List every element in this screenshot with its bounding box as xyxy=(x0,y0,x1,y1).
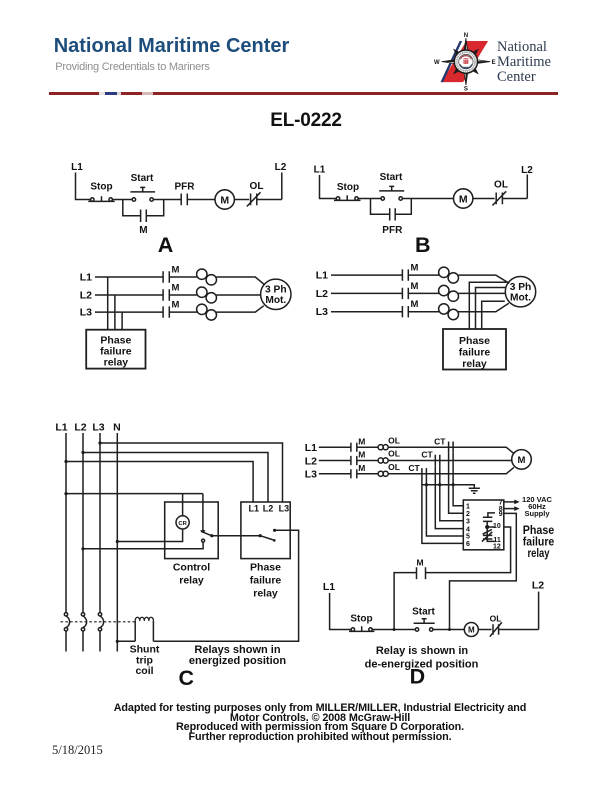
pushbutton Start (B, NO) xyxy=(379,172,404,200)
svg-text:Stop: Stop xyxy=(90,182,112,193)
svg-text:L2: L2 xyxy=(275,162,287,173)
breaker L3 (C) xyxy=(98,613,103,631)
current transformer CT L1 (D) xyxy=(434,436,453,453)
dashed trip linkage (C) xyxy=(61,621,136,623)
wire N to shunt trip coil (C) xyxy=(116,640,135,643)
wire CT L3 secondary to terminal 5 (D) xyxy=(425,480,464,537)
caption Relay is shown in de-energized position (D) xyxy=(365,645,479,670)
svg-text:12: 12 xyxy=(493,544,501,551)
svg-text:M: M xyxy=(416,558,423,568)
wire feeder L2 (C) xyxy=(82,433,84,613)
wire phase L2 (D) xyxy=(319,460,512,462)
svg-text:CT: CT xyxy=(421,450,433,460)
contact M phase L3 (MR) xyxy=(402,299,418,317)
node L3 (ML) xyxy=(80,307,92,319)
pushbutton Stop (A, NC) xyxy=(88,182,114,202)
svg-text:B: B xyxy=(415,233,431,257)
svg-text:OL: OL xyxy=(490,614,502,624)
label D xyxy=(410,665,426,689)
label 120 VAC 60Hz Supply (D) xyxy=(522,495,552,518)
contact M phase L2 (D) xyxy=(351,450,365,465)
wire branch L2 to relay terminal L2 (C) xyxy=(81,451,268,502)
wire tap L2 to relay (ML) xyxy=(114,295,116,330)
switch PFR contact (C) xyxy=(259,529,277,542)
svg-text:CR: CR xyxy=(178,521,187,527)
overload heater L1 (MR) xyxy=(439,267,459,283)
node L2 (D rung) xyxy=(532,580,544,630)
wire feeder L1 (C) xyxy=(65,433,67,613)
svg-text:1: 1 xyxy=(466,503,470,510)
wire coil to OL (A) xyxy=(234,199,249,201)
label Phase failure relay (C) xyxy=(250,562,282,600)
svg-text:M: M xyxy=(468,626,475,635)
ground bus (D) xyxy=(422,485,474,489)
svg-text:Control: Control xyxy=(173,562,210,574)
wire PFR to coil M (A) xyxy=(187,199,215,201)
overload heater L1 (D) xyxy=(378,435,400,449)
terminal numbers 1-6 (D) xyxy=(466,503,470,548)
supply arrow terminal 8 (D) xyxy=(504,506,520,511)
svg-text:6: 6 xyxy=(466,541,470,548)
wire phase L2 (MR) xyxy=(331,292,505,294)
svg-text:Mot.: Mot. xyxy=(265,295,286,306)
contact M seal-in branch (A) xyxy=(123,200,164,237)
contact CR lower terminal to L2 (C) xyxy=(81,539,204,550)
svg-text:L3: L3 xyxy=(279,503,290,513)
svg-text:Start: Start xyxy=(412,607,435,618)
svg-text:OL: OL xyxy=(388,435,400,445)
switch CR contact arm (C) xyxy=(201,531,261,537)
wire OL to L2 (D) xyxy=(499,629,539,631)
svg-text:relay: relay xyxy=(253,588,278,600)
wire coil to OL (B) xyxy=(473,198,495,200)
svg-text:relay: relay xyxy=(104,357,129,369)
wire L1 lead (B) xyxy=(320,175,337,199)
svg-text:relay: relay xyxy=(528,546,550,560)
red diagonal stripe xyxy=(441,41,488,82)
svg-text:9: 9 xyxy=(499,511,503,518)
node L1 (A) xyxy=(71,162,83,173)
svg-text:L1: L1 xyxy=(249,503,260,513)
contact M phase L1 (D) xyxy=(351,436,365,451)
svg-text:OL: OL xyxy=(388,449,400,459)
label Phase failure relay (D) xyxy=(523,523,555,560)
wire CT L2 secondary to terminal 4 (D) xyxy=(435,466,463,528)
svg-text:PFR: PFR xyxy=(175,182,196,193)
wire branch L3 to relay terminal L3 (C) xyxy=(98,441,282,502)
svg-text:A: A xyxy=(158,233,174,257)
svg-text:L1: L1 xyxy=(305,442,317,454)
node L2 (A) xyxy=(275,162,287,200)
wire coil to OL (D) xyxy=(478,629,491,631)
wire CR coil to N (C) xyxy=(116,529,183,543)
svg-text:failure: failure xyxy=(250,575,282,587)
svg-text:C: C xyxy=(179,666,195,690)
overload heater L3 (MR) xyxy=(439,304,459,320)
overload heater L2 (D) xyxy=(378,449,400,463)
contact PFR (A) xyxy=(175,182,196,206)
node L3 (MR) xyxy=(316,306,328,318)
coil M (D) xyxy=(464,623,478,637)
svg-text:L1: L1 xyxy=(71,162,83,173)
svg-text:M: M xyxy=(220,194,229,206)
svg-text:M: M xyxy=(411,263,419,274)
svg-text:Mot.: Mot. xyxy=(510,293,531,304)
coil CR (C) xyxy=(176,516,189,529)
shunt trip coil (C) xyxy=(135,617,153,641)
svg-text:failure: failure xyxy=(459,346,491,358)
phase failure relay box (MR) xyxy=(443,329,506,370)
node L3 (C) xyxy=(92,422,104,434)
svg-text:Stop: Stop xyxy=(337,182,359,193)
phase failure relay box (C) xyxy=(241,502,290,559)
svg-text:L2: L2 xyxy=(305,455,317,467)
svg-text:M: M xyxy=(358,450,365,460)
contact OL (A) xyxy=(247,181,264,207)
wire CT L3 secondary to terminal 6 (D) xyxy=(422,480,463,544)
svg-text:M: M xyxy=(172,300,180,311)
svg-text:PFR: PFR xyxy=(382,225,403,236)
svg-text:OL: OL xyxy=(494,180,508,191)
svg-text:L1: L1 xyxy=(316,270,328,282)
svg-text:M: M xyxy=(172,265,180,276)
svg-text:M: M xyxy=(139,225,147,236)
node L1 (C) xyxy=(55,422,67,434)
wire Stop to Start (A) xyxy=(112,199,132,201)
svg-text:3 Ph: 3 Ph xyxy=(265,285,287,296)
wire relay tap 1 (MR) xyxy=(469,282,506,329)
wire terminal 9 to start bypass (D) xyxy=(450,513,517,629)
logo compass rose xyxy=(430,26,500,92)
svg-text:M: M xyxy=(459,193,468,205)
wire feeder stubs below breakers (C) xyxy=(66,631,100,652)
svg-text:L3: L3 xyxy=(305,469,317,481)
node L3 (D top) xyxy=(305,469,317,481)
terminal numbers 7-12 (D) xyxy=(493,499,503,550)
wire phase L2 (ML) xyxy=(95,294,261,296)
svg-text:L2: L2 xyxy=(532,580,544,592)
wire phase L1 (MR) xyxy=(331,275,509,283)
phase failure relay box (D) xyxy=(463,500,504,550)
overload heater L3 (D) xyxy=(378,462,400,476)
svg-text:L3: L3 xyxy=(316,306,328,318)
node L1 (D rung) xyxy=(323,581,351,630)
current transformer CT L3 (D) xyxy=(408,463,426,480)
node L1 (MR) xyxy=(316,270,328,282)
contact M auxiliary (D) xyxy=(416,558,425,580)
wire CT L1 secondary to terminal 1 (D) xyxy=(452,453,464,506)
overload heater L2 (MR) xyxy=(439,285,459,301)
overload heater L3 (ML) xyxy=(197,304,217,320)
wire tap L1 to relay (ML) xyxy=(107,277,109,330)
svg-text:relay: relay xyxy=(462,358,487,370)
coil M (B) xyxy=(454,189,473,208)
svg-text:Stop: Stop xyxy=(350,614,372,625)
wire phase L1 (D) xyxy=(319,447,514,453)
svg-text:CT: CT xyxy=(434,436,446,446)
node L2 (B) xyxy=(521,165,533,199)
svg-text:OL: OL xyxy=(250,181,264,192)
svg-text:2: 2 xyxy=(466,511,470,518)
wire phase L3 (D) xyxy=(319,467,514,473)
node L1 (ML) xyxy=(80,272,92,284)
label C xyxy=(179,666,195,690)
wire OL to L2 (A) xyxy=(257,199,282,201)
node L1 (B) xyxy=(314,165,326,176)
wire feeder L3 (C) xyxy=(99,433,101,613)
pushbutton Start (D, NO) xyxy=(412,607,435,632)
pushbutton Stop (B, NC) xyxy=(334,182,361,200)
node L1 (D top) xyxy=(305,442,317,454)
svg-text:M: M xyxy=(411,281,419,292)
wire Start to coil M (B) xyxy=(402,198,453,200)
wire Stop to Start (D) xyxy=(372,628,415,631)
wire phase L1 (ML) xyxy=(95,277,265,285)
motor 3 Ph Mot. (ML) xyxy=(261,279,291,309)
node L2 (D top) xyxy=(305,455,317,467)
contact OL (B) xyxy=(492,180,508,206)
svg-text:M: M xyxy=(411,299,419,310)
svg-text:Phase: Phase xyxy=(459,335,490,347)
motor 3 Ph Mot. (MR) xyxy=(505,277,535,307)
relay internal contact chain (D) xyxy=(482,513,496,542)
wire Start to PFR contact (A) xyxy=(153,199,181,201)
svg-text:L2: L2 xyxy=(74,422,86,434)
svg-text:L3: L3 xyxy=(80,307,92,319)
node N (C) xyxy=(113,422,121,434)
svg-text:L1: L1 xyxy=(80,272,92,284)
current transformer CT L2 (D) xyxy=(421,450,439,467)
svg-text:5: 5 xyxy=(466,534,470,541)
wire relay tap 2 (MR) xyxy=(476,288,506,330)
wire Stop to Start (B) xyxy=(358,198,381,200)
wire phase L3 (ML) xyxy=(95,306,264,312)
svg-text:L1: L1 xyxy=(55,422,67,434)
svg-text:Phase: Phase xyxy=(250,562,281,574)
wire OL to L2 (B) xyxy=(502,198,527,200)
overload heater L2 (ML) xyxy=(197,287,217,303)
node L2 (ML) xyxy=(80,290,92,302)
svg-text:L1: L1 xyxy=(314,165,326,176)
breaker L1 (C) xyxy=(64,613,69,631)
svg-text:M: M xyxy=(172,283,180,294)
contact M phase L3 (D) xyxy=(351,463,365,478)
svg-text:4: 4 xyxy=(466,526,470,533)
footer date xyxy=(52,743,103,758)
wire terminal 10 to M contact branch (D) xyxy=(426,527,511,573)
motor M (D) xyxy=(512,450,532,470)
svg-text:relay: relay xyxy=(179,575,204,587)
label Control relay (C) xyxy=(173,562,210,587)
supply arrow terminal 7 (D) xyxy=(504,500,520,505)
header subtitle xyxy=(55,61,209,73)
wire to CR coil (C) xyxy=(182,494,184,516)
svg-text:Start: Start xyxy=(131,173,154,184)
footer credits xyxy=(14,704,612,743)
svg-text:L3: L3 xyxy=(92,422,104,434)
label Shunt trip coil (C) xyxy=(130,644,160,677)
svg-text:M: M xyxy=(358,463,365,473)
pushbutton Start (A, NO) xyxy=(130,173,155,201)
node L2 (MR) xyxy=(316,288,328,300)
svg-text:3 Ph: 3 Ph xyxy=(510,282,532,293)
svg-text:Relay is shown in: Relay is shown in xyxy=(376,645,469,657)
breaker L2 (C) xyxy=(81,613,86,631)
wire CT L1 secondary to terminal 2 (D) xyxy=(449,453,464,513)
svg-text:D: D xyxy=(410,665,426,689)
pushbutton Stop (D, NC) xyxy=(349,614,374,632)
svg-text:L2: L2 xyxy=(80,290,92,302)
svg-text:OL: OL xyxy=(388,462,400,472)
contact OL (D) xyxy=(490,614,502,637)
label B xyxy=(415,233,431,257)
wire L1 lead (A) xyxy=(76,173,91,200)
compass diagonal points xyxy=(450,45,482,77)
svg-text:energized position: energized position xyxy=(189,655,286,667)
svg-text:L2: L2 xyxy=(521,165,533,176)
header rule (red/blue banner line) xyxy=(49,92,558,95)
wire branch L1 to control relay (C) xyxy=(64,492,203,495)
svg-text:coil: coil xyxy=(135,665,153,677)
logo text xyxy=(497,40,551,85)
wire to CR switch pivot (C) xyxy=(202,494,204,531)
wire phase L3 (MR) xyxy=(331,303,509,312)
wire PFR contact to shunt trip (C) xyxy=(153,530,298,641)
svg-text:L2: L2 xyxy=(263,503,274,513)
svg-text:M: M xyxy=(358,436,365,446)
wire M contact to rung (D) xyxy=(394,573,416,630)
overload heater L1 (ML) xyxy=(197,269,217,285)
wire branch L1 to relay terminal L1 (C) xyxy=(64,460,253,502)
svg-text:Start: Start xyxy=(380,172,403,183)
USCG seal center xyxy=(454,50,477,73)
contact M phase L2 (ML) xyxy=(163,283,179,301)
label A xyxy=(158,233,174,257)
contact M phase L1 (ML) xyxy=(163,265,179,283)
contact M phase L3 (ML) xyxy=(163,300,179,318)
header title xyxy=(54,35,290,58)
coil M (A) xyxy=(215,190,234,209)
svg-text:Supply: Supply xyxy=(524,509,550,518)
contact PFR seal-in branch (B) xyxy=(371,199,412,237)
wire feeder N (C) xyxy=(116,433,118,652)
contact M phase L1 (MR) xyxy=(402,263,418,281)
svg-text:M: M xyxy=(518,455,526,466)
ground symbol (D) xyxy=(469,488,480,493)
wire relay tap 3 (MR) xyxy=(482,301,505,329)
caption Relays shown in energized position (C) xyxy=(189,644,286,667)
wire tap L3 to relay (ML) xyxy=(121,312,123,330)
svg-text:L1: L1 xyxy=(323,581,335,593)
node L2 (C) xyxy=(74,422,86,434)
svg-text:L2: L2 xyxy=(316,288,328,300)
control relay box (C) xyxy=(165,502,219,559)
blue diagonal stripe xyxy=(441,41,463,82)
phase failure relay box (ML) xyxy=(86,330,145,369)
svg-text:CT: CT xyxy=(408,463,420,473)
svg-text:N: N xyxy=(113,422,121,434)
wire Start to coil M (D) xyxy=(433,628,464,631)
compass main points (black/white kite) xyxy=(442,38,490,85)
svg-text:3: 3 xyxy=(466,518,470,525)
contact M phase L2 (MR) xyxy=(402,281,418,299)
document number xyxy=(0,110,612,132)
wire CT L2 secondary to terminal 3 (D) xyxy=(438,466,463,521)
